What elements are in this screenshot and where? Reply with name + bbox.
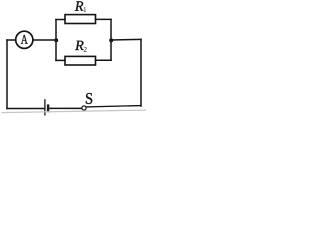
- wire battery to switch: [50, 107, 82, 109]
- ammeter U1: [16, 31, 33, 48]
- label R1: [75, 1, 84, 10]
- wire to R2 left: [56, 59, 65, 61]
- wire R1 right to right branch: [96, 18, 112, 20]
- label R2: [75, 41, 84, 50]
- wire bottom left to battery: [7, 108, 44, 110]
- wire to R1 left: [56, 19, 65, 21]
- ammeter label A: [21, 35, 28, 44]
- resistor R1: [65, 15, 96, 24]
- wire right branch vertical: [110, 19, 112, 60]
- wire left branch vertical: [55, 20, 57, 61]
- battery BT1 plate short: [47, 104, 49, 112]
- switch S lever: [86, 106, 141, 107]
- scan shadow line under bottom wire: [2, 110, 146, 113]
- label S: [86, 93, 92, 104]
- battery BT1 plate long: [44, 100, 46, 115]
- wire right vertical: [140, 39, 142, 106]
- wire left vertical: [6, 40, 8, 109]
- resistor R2: [65, 56, 96, 65]
- node B junction dot right: [109, 38, 113, 42]
- wire R2 right to right branch: [96, 59, 112, 61]
- wire node B to right rail: [111, 38, 141, 41]
- wire ammeter to left rail: [7, 39, 16, 41]
- wire ammeter to node A: [33, 39, 56, 41]
- node A junction dot left: [54, 38, 58, 42]
- switch S pivot circle: [82, 106, 86, 110]
